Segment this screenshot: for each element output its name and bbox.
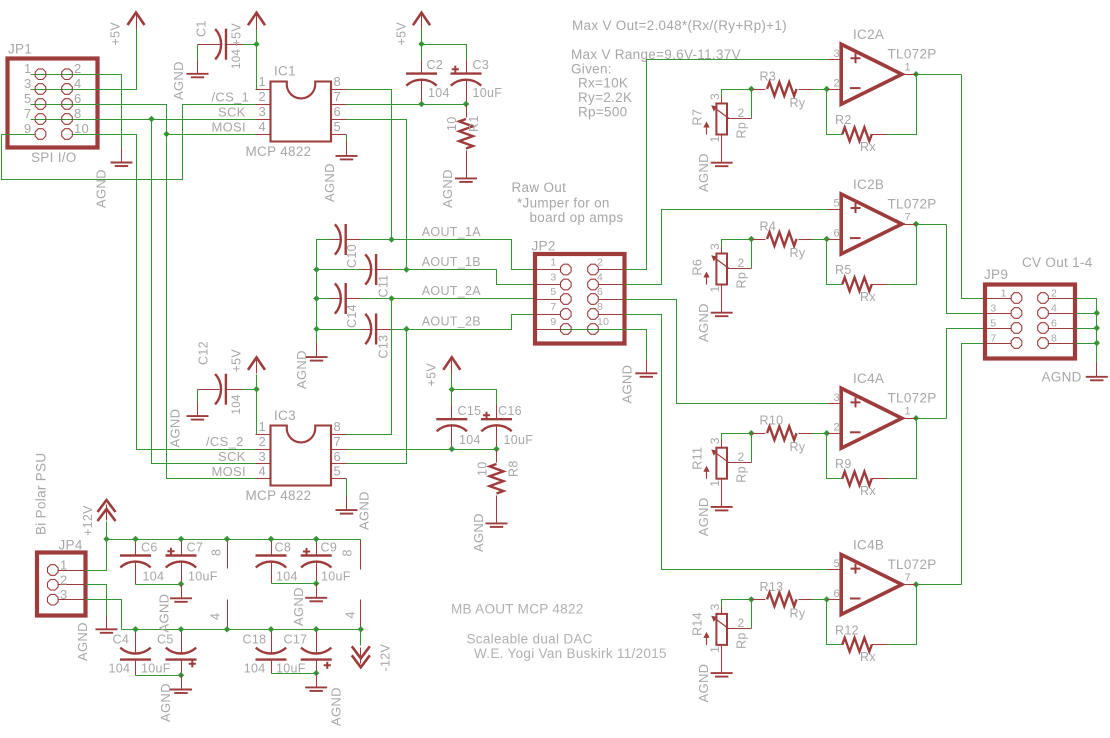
svg-text:C14: C14 (345, 304, 359, 328)
wire IC1 pin6 (VOUTB) to AOUT_1B (347, 120, 407, 270)
svg-text:TL072P: TL072P (888, 196, 937, 211)
svg-text:R1: R1 (467, 115, 481, 132)
svg-text:104: 104 (231, 394, 243, 414)
ground AGND below JP1 (111, 149, 133, 167)
svg-text:R5: R5 (835, 263, 852, 277)
svg-text:Rp: Rp (735, 466, 749, 483)
wire IC3 pin7 rail under C15 C16 (347, 449, 497, 451)
wire SCK JP1 pins7-8 to IC1 pin3 (31, 119, 256, 121)
svg-text:AGND: AGND (168, 409, 183, 448)
svg-text:Rp: Rp (735, 272, 749, 289)
svg-text:Rx: Rx (860, 484, 876, 498)
JP1 pin pads (35, 69, 46, 80)
potentiometer R11 (Rp) (716, 448, 727, 479)
supply +5V arrow at C2/C3 (413, 13, 430, 30)
svg-text:Ry=2.2K: Ry=2.2K (578, 90, 632, 105)
svg-text:1: 1 (905, 62, 911, 74)
svg-text:10uF: 10uF (141, 662, 171, 676)
svg-text:4: 4 (258, 119, 266, 134)
svg-text:6: 6 (74, 91, 82, 106)
potentiometer R14 (Rp) (716, 614, 727, 645)
svg-text:IC4A: IC4A (853, 371, 884, 386)
junction +12V (103, 536, 109, 542)
svg-text:9: 9 (24, 121, 32, 136)
wire JP4 pin1 to +12V rail (86, 522, 107, 571)
svg-text:R4: R4 (760, 220, 777, 234)
svg-text:C5: C5 (157, 633, 174, 647)
ground AGND below C5 (170, 676, 192, 694)
junction +5V C12 (253, 386, 259, 392)
svg-text:Rp=500: Rp=500 (578, 104, 627, 119)
ground AGND at C12 (187, 402, 209, 420)
svg-text:104: 104 (143, 570, 165, 584)
wire output of IC4A (917, 418, 947, 420)
capacitor C18 (256, 648, 287, 660)
svg-text:2: 2 (74, 61, 82, 76)
svg-text:MCP 4822: MCP 4822 (246, 144, 312, 159)
wire JP1 pins1-2 to AGND (31, 75, 122, 149)
wire R4 node (722, 240, 828, 247)
svg-text:IC2A: IC2A (853, 27, 884, 42)
svg-text:C9: C9 (321, 540, 338, 554)
svg-text:6: 6 (1051, 317, 1057, 329)
supply +5V arrow at C12/IC3 (248, 357, 265, 373)
junction pot R7 (748, 86, 754, 92)
svg-text:TL072P: TL072P (888, 557, 937, 572)
wire C18 C17 bottoms tied (272, 673, 317, 675)
svg-text:+5V: +5V (395, 22, 409, 46)
svg-text:IC1: IC1 (274, 64, 296, 79)
capacitor C7 (polarized) (166, 556, 197, 568)
junction C17 ground tie (313, 670, 319, 676)
svg-text:board op amps: board op amps (530, 210, 624, 225)
svg-text:AGND: AGND (322, 163, 337, 202)
wire JP4 pin2 to AGND (86, 585, 107, 616)
junction -input IC2A (824, 86, 830, 92)
junction SCK (148, 116, 154, 122)
resistor R9 (Rx) (842, 472, 871, 486)
svg-text:8: 8 (334, 74, 342, 89)
svg-text:1: 1 (708, 136, 722, 143)
svg-text:AGND: AGND (696, 303, 711, 342)
svg-text:AOUT_1A: AOUT_1A (422, 225, 481, 239)
ground AGND at C1 (187, 60, 209, 78)
wire IC3 pin6 (VOUTB) up to AOUT_2B (347, 330, 407, 464)
wire IC1 pin7 rail under C2 C3 (347, 104, 467, 106)
svg-text:10uF: 10uF (188, 570, 218, 584)
wire AOUT_2A to JP2 pin5 (361, 298, 536, 300)
JP4 pin pads (48, 565, 59, 576)
svg-text:5: 5 (834, 198, 840, 210)
svg-text:JP1: JP1 (8, 42, 32, 57)
svg-text:MB AOUT MCP 4822: MB AOUT MCP 4822 (451, 602, 584, 617)
svg-text:AGND: AGND (94, 169, 109, 208)
rail junction dots (132, 536, 138, 542)
capacitor C3 (polarized) (451, 74, 482, 86)
svg-text:3: 3 (258, 449, 266, 464)
wire R10 node (722, 434, 828, 441)
resistor R5 (Rx) (842, 277, 871, 291)
svg-text:8: 8 (1051, 332, 1057, 344)
svg-text:10: 10 (476, 461, 490, 476)
capacitor C4 (120, 648, 151, 660)
junction rail 2A (313, 295, 319, 301)
svg-text:4: 4 (258, 464, 266, 479)
connector JP4 box (37, 553, 86, 616)
IC IC1 body (271, 82, 332, 142)
svg-text:2: 2 (738, 256, 745, 270)
wire JP2 pins 9-10 to AGND (561, 330, 647, 360)
junction JP9 pin6 (1094, 325, 1100, 331)
wire JP2 pin6 down to IC4A +input (625, 300, 828, 404)
svg-text:6: 6 (834, 588, 840, 600)
capacitor C12 (215, 374, 226, 405)
svg-text:JP2: JP2 (532, 239, 556, 254)
svg-text:2: 2 (738, 450, 745, 464)
svg-text:/CS_1: /CS_1 (212, 89, 250, 104)
resistor R12 (Rx) (842, 638, 871, 652)
svg-text:C1: C1 (195, 20, 209, 37)
junction JP9 pin8 (1094, 340, 1100, 346)
pot R6 pin1 to AGND (721, 285, 723, 299)
junction AOUT_2A (388, 295, 394, 301)
capacitor C9 (polarized) (301, 556, 332, 568)
svg-text:Ry: Ry (790, 606, 806, 620)
opamp power pin stub 4 (left) (227, 600, 229, 630)
svg-text:2: 2 (834, 422, 840, 434)
svg-text:C15: C15 (458, 404, 482, 418)
resistor R2 (Rx) (842, 127, 871, 141)
svg-text:1: 1 (550, 256, 556, 268)
potentiometer R6 (Rp) (716, 254, 727, 285)
svg-text:7: 7 (334, 89, 342, 104)
svg-text:MOSI: MOSI (212, 464, 246, 479)
junction output IC2B (913, 221, 919, 227)
svg-text:SPI I/O: SPI I/O (31, 150, 77, 165)
svg-text:Rx: Rx (860, 290, 876, 304)
svg-text:R2: R2 (835, 113, 852, 127)
IC IC3 body MCP4822 #2 (271, 426, 332, 486)
svg-text:+5V: +5V (109, 22, 123, 46)
svg-text:MCP 4822: MCP 4822 (246, 488, 312, 503)
svg-text:3: 3 (708, 603, 722, 610)
svg-text:104: 104 (244, 662, 266, 676)
ground AGND at IC3 pin5 (336, 496, 358, 514)
JP2 pin stubs (536, 269, 561, 271)
svg-text:Rp: Rp (735, 122, 749, 139)
svg-text:AOUT_2B: AOUT_2B (422, 315, 481, 329)
svg-text:AGND: AGND (620, 365, 635, 404)
svg-text:3: 3 (990, 302, 996, 314)
wire pot wiper to top (751, 240, 753, 269)
svg-text:C6: C6 (141, 540, 158, 554)
svg-text:AOUT_2A: AOUT_2A (422, 284, 481, 298)
wire IC3 pin5 to AGND (346, 479, 348, 496)
svg-text:6: 6 (334, 104, 342, 119)
junction C3 bottom (463, 101, 469, 107)
ground AGND below C17 (305, 674, 327, 691)
svg-text:104: 104 (428, 86, 450, 100)
resistor R10 (Ry) (752, 433, 766, 435)
svg-text:7: 7 (334, 434, 342, 449)
svg-text:Rx=10K: Rx=10K (578, 76, 628, 91)
svg-text:C13: C13 (377, 335, 391, 359)
svg-text:5: 5 (990, 317, 996, 329)
wire cap left rail to AGND (317, 240, 362, 343)
svg-text:/CS_2: /CS_2 (206, 434, 244, 449)
svg-text:2: 2 (738, 616, 745, 630)
svg-text:2: 2 (738, 106, 745, 120)
svg-text:TL072P: TL072P (888, 47, 937, 62)
svg-text:C2: C2 (427, 58, 444, 72)
JP4 pin stubs (59, 570, 86, 572)
resistor R13 (Ry) (752, 599, 766, 601)
svg-text:R11: R11 (691, 447, 705, 470)
pot R7 adjust arrow (706, 125, 708, 135)
wire C8 C9 bottoms tied (272, 583, 317, 585)
svg-text:1: 1 (708, 480, 722, 487)
capacitor C14 (335, 283, 346, 314)
junction -input IC2B (824, 236, 830, 242)
svg-text:7: 7 (24, 106, 32, 121)
op-amp IC4B plus minus marks (851, 564, 861, 574)
svg-text:Scaleable dual DAC: Scaleable dual DAC (467, 632, 593, 647)
op-amp IC2A plus minus marks (851, 53, 861, 63)
junction pot R14 (748, 596, 754, 602)
svg-text:+12V: +12V (81, 505, 95, 536)
op-amp IC4B input stubs (828, 569, 842, 571)
wire IC3 pin8 (VOUTA) up to AOUT_2A (347, 299, 392, 435)
ground AGND below R8 (486, 510, 508, 527)
wire -12V rail (122, 629, 361, 631)
junction rail 2B (313, 326, 319, 332)
svg-text:3: 3 (708, 93, 722, 100)
op-amp IC2B triangle (841, 194, 902, 254)
junction -input IC4B (824, 596, 830, 602)
wire AOUT_2B to JP2 pin7 (392, 315, 536, 330)
wire output of IC2B (917, 224, 947, 226)
wire +5V to C1 and IC1 pin1 (243, 30, 257, 90)
op-amp IC4B triangle (841, 555, 902, 615)
svg-text:4: 4 (1051, 302, 1057, 314)
wire C1 left to AGND (197, 45, 199, 60)
resistor R1 (466, 105, 468, 118)
wire IC1 pin5 to AGND (346, 135, 348, 142)
pot R11 adjust arrow (706, 469, 708, 479)
svg-text:W.E. Yogi Van Buskirk 11/2015: W.E. Yogi Van Buskirk 11/2015 (474, 646, 667, 661)
svg-text:3: 3 (550, 271, 556, 283)
junction C15 bottom (449, 446, 455, 452)
wire pot wiper to top (751, 600, 753, 629)
svg-text:C3: C3 (473, 58, 490, 72)
svg-text:Rx: Rx (860, 140, 876, 154)
JP9 pin stubs (986, 298, 1012, 300)
svg-text:7: 7 (905, 212, 911, 224)
svg-text:C16: C16 (498, 404, 522, 418)
svg-text:6: 6 (334, 449, 342, 464)
IC3 pin stubs (256, 434, 271, 436)
svg-text:3: 3 (60, 587, 68, 602)
svg-text:2: 2 (597, 256, 603, 268)
svg-text:2: 2 (258, 89, 266, 104)
junction MOSI (163, 131, 169, 137)
svg-text:AOUT_1B: AOUT_1B (422, 255, 481, 269)
svg-text:2: 2 (60, 572, 68, 587)
svg-text:8: 8 (334, 419, 342, 434)
pot R11 pin1 to AGND (721, 479, 723, 493)
capacitor C6 (120, 556, 151, 568)
svg-text:AGND: AGND (294, 350, 309, 389)
svg-text:Given:: Given: (571, 61, 612, 76)
svg-text:C11: C11 (377, 275, 391, 298)
svg-text:IC2B: IC2B (853, 177, 884, 192)
svg-text:C8: C8 (275, 540, 292, 554)
wire SCK branch down to IC3 pin3 (152, 120, 256, 464)
wire C12 left to AGND (197, 390, 199, 402)
svg-text:IC3: IC3 (274, 408, 296, 423)
svg-text:5: 5 (550, 286, 556, 298)
svg-text:Bi Polar PSU: Bi Polar PSU (34, 453, 49, 535)
ground AGND below C9 (305, 584, 327, 602)
capacitor C1 (215, 29, 226, 60)
op-amp IC2B plus minus marks (851, 203, 861, 213)
wire IC4B output up to JP9 pin7 (962, 344, 986, 585)
ground AGND below R1 (455, 165, 477, 182)
svg-text:8: 8 (341, 549, 355, 556)
svg-text:JP9: JP9 (984, 267, 1008, 282)
junction output IC2A (913, 71, 919, 77)
opamp power pin stub 8 (right) (360, 541, 362, 570)
pot R14 adjust arrow (706, 635, 708, 645)
capacitor C11 (365, 254, 376, 285)
pot R14 wiper (728, 628, 752, 630)
junction AOUT_1A (388, 236, 394, 242)
wire pot wiper to top (751, 90, 753, 119)
resistor R4 (Ry) (752, 239, 766, 241)
wire AOUT_1B to JP2 pin3 (392, 270, 536, 285)
op-amp IC2B output stub (902, 224, 917, 226)
svg-text:1: 1 (60, 558, 68, 573)
wire /CS_1 JP1 pin9 wrap-around to IC1 pin2 (2, 105, 256, 180)
op-amp IC4A output stub (902, 418, 917, 420)
svg-text:AGND: AGND (157, 594, 172, 633)
wire JP9 pins 2,4,6,8 to AGND (1076, 299, 1097, 363)
svg-text:Max V Out=2.048*(Rx/(Ry+Rp)+1): Max V Out=2.048*(Rx/(Ry+Rp)+1) (572, 18, 787, 33)
junction output IC4B (913, 581, 919, 587)
wire JP1 pins3-4 to +5V (31, 30, 137, 90)
svg-text:7: 7 (990, 332, 996, 344)
wire R3 node (722, 90, 828, 97)
junction AOUT_1B (403, 266, 409, 272)
junction rail 1B (313, 266, 319, 272)
junction pot R6 (748, 236, 754, 242)
svg-text:9: 9 (550, 316, 556, 328)
supply +5V arrow at C1/IC1 (248, 13, 265, 30)
IC1 pin stubs (256, 89, 271, 91)
svg-text:R10: R10 (760, 414, 784, 428)
supply +5V arrow at C15/C16 (443, 357, 460, 373)
junction output IC4A (913, 415, 919, 421)
svg-text:AGND: AGND (158, 683, 173, 722)
wire /CS_2 JP1 pin10 down to IC3 pin2 (73, 135, 256, 450)
svg-text:Raw Out: Raw Out (512, 180, 567, 195)
wire MOSI JP1 pins5-6 down to IC3 (31, 105, 256, 479)
svg-text:R8: R8 (507, 460, 521, 477)
svg-text:R9: R9 (835, 457, 852, 471)
svg-text:C4: C4 (113, 633, 130, 647)
svg-text:7: 7 (550, 301, 556, 313)
svg-text:JP4: JP4 (59, 538, 83, 553)
svg-text:R6: R6 (691, 259, 705, 276)
svg-text:R14: R14 (691, 612, 705, 636)
wire pot wiper to top (751, 434, 753, 463)
svg-text:*Jumper for on: *Jumper for on (517, 196, 610, 211)
svg-text:AGND: AGND (1042, 370, 1082, 385)
svg-text:2: 2 (258, 434, 266, 449)
svg-text:AGND: AGND (440, 169, 455, 208)
svg-text:10: 10 (597, 316, 609, 328)
junction AOUT_2B (403, 326, 409, 332)
svg-text:5: 5 (834, 558, 840, 570)
pot R6 adjust arrow (706, 275, 708, 285)
wire JP2 pin4 up to IC2B +input (625, 210, 828, 285)
svg-text:2: 2 (1051, 287, 1057, 299)
junction +5V C15C16 (449, 386, 455, 392)
svg-text:Ry: Ry (790, 96, 806, 110)
svg-text:C12: C12 (197, 341, 211, 365)
junction C2 bottom (418, 101, 424, 107)
capacitor C10 (335, 224, 346, 255)
connector JP9 (CV Out 1-4) box (985, 285, 1075, 359)
svg-text:AGND: AGND (696, 664, 711, 703)
resistor R3 (Ry) (752, 89, 766, 91)
svg-text:8: 8 (74, 106, 82, 121)
svg-text:AGND: AGND (291, 587, 306, 626)
svg-text:8: 8 (210, 549, 224, 556)
capacitor C5 (polarized) (166, 648, 197, 660)
wire +5V to C15 and C16 tops (452, 374, 497, 405)
wire -input to R12 (827, 585, 917, 645)
ground AGND at JP4 pin2 (96, 616, 118, 633)
op-amp IC4A triangle (841, 388, 902, 448)
wire +5V to C12 and IC3 pin1 (243, 375, 257, 435)
svg-text:4: 4 (344, 611, 358, 618)
capacitor C8 (256, 556, 287, 568)
wire +12V rail (107, 540, 361, 546)
svg-text:104: 104 (231, 49, 243, 69)
svg-text:2: 2 (834, 78, 840, 90)
opamp power pin stub 4 (right) (360, 600, 362, 630)
svg-text:R13: R13 (760, 580, 784, 594)
junction C5 ground tie (178, 672, 184, 678)
svg-text:IC4B: IC4B (853, 537, 884, 552)
svg-text:-12V: -12V (379, 644, 393, 672)
op-amp IC2A triangle (841, 44, 902, 104)
svg-text:1: 1 (708, 286, 722, 293)
svg-text:6: 6 (834, 228, 840, 240)
wire -input to R5 (827, 225, 917, 285)
svg-text:MOSI: MOSI (212, 119, 246, 134)
svg-text:C7: C7 (187, 540, 204, 554)
svg-text:4: 4 (597, 271, 603, 283)
wire C6 C7 bottoms tied (136, 584, 182, 586)
svg-text:AGND: AGND (171, 61, 186, 100)
svg-text:10uF: 10uF (504, 433, 534, 447)
capacitor C16 (polarized) (481, 419, 512, 431)
capacitor C15 (436, 419, 467, 431)
svg-text:4: 4 (209, 613, 223, 620)
JP2 pin pads (561, 264, 572, 275)
